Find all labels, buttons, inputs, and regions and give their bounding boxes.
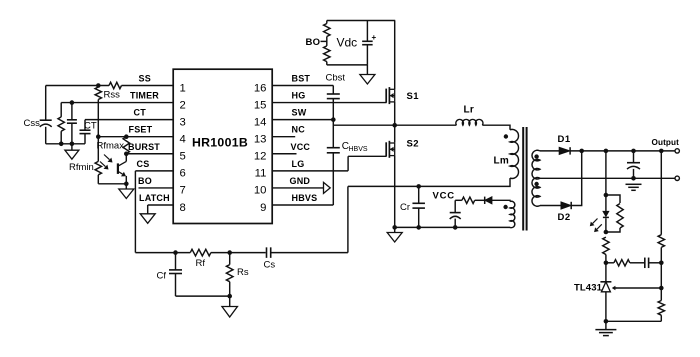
svg-text:3: 3 [180, 116, 186, 128]
svg-text:Cf: Cf [157, 271, 167, 282]
wire CS pin6 [135, 170, 173, 172]
svg-text:VCC: VCC [433, 191, 455, 202]
svg-text:7: 7 [180, 185, 186, 197]
svg-text:BO: BO [306, 37, 321, 48]
wire Css vertical top [45, 86, 47, 121]
wire TIMER corner down [60, 103, 62, 117]
svg-text:2: 2 [180, 99, 186, 111]
node TIMER-cap junction [70, 100, 75, 105]
resistor VCC aux [462, 197, 475, 203]
LED light arrow 1 [593, 219, 598, 224]
capacitor Cr [412, 202, 425, 204]
node rail-cap junction [70, 142, 75, 147]
svg-text:Rs: Rs [237, 267, 249, 278]
wire CHBVS to HBVS [332, 153, 334, 205]
svg-text:+: + [372, 33, 377, 42]
wire comp resistor to cap [630, 262, 645, 264]
node rail-resistor junction [59, 142, 64, 147]
wire comp node to TL431 [605, 263, 607, 282]
wire divider top [660, 151, 662, 235]
polarity dot Lm [504, 134, 508, 138]
wire LG pin11 [272, 170, 348, 172]
resistor opto parallel [617, 204, 623, 229]
TL431 U2 triangle [601, 282, 610, 292]
svg-text:5: 5 [180, 151, 186, 163]
inductor aux winding [510, 201, 515, 227]
wire Cf top [175, 253, 177, 270]
node ref-divider junction [659, 286, 664, 291]
resistor Rs [226, 265, 233, 282]
wire HG pin15 [272, 102, 386, 104]
LED optocoupler diode [603, 211, 609, 216]
wire TL431 ref line [615, 287, 661, 289]
wire BO divider middle [326, 37, 328, 46]
polarity dot secondary lower [534, 182, 538, 186]
wire cap branch bottom [71, 123, 73, 144]
wire Vdc cap bottom [366, 45, 368, 65]
ground output earth [626, 183, 642, 185]
wire left ground rail [46, 143, 85, 145]
wire opto parallel top stub [606, 195, 620, 203]
wire secondary top to D1 [540, 150, 559, 152]
wire LG to S2 gate [348, 155, 387, 157]
node divider junction [659, 149, 664, 154]
node Cf junction [173, 250, 178, 255]
ground left network [65, 150, 79, 159]
node opto bottom junction [604, 230, 609, 235]
svg-text:6: 6 [180, 168, 186, 180]
node Cvcc ground junction [453, 225, 458, 230]
wire primary ground rail [395, 226, 510, 228]
polarity dot aux winding [503, 205, 507, 209]
phototransistor Q1 collector arm [118, 161, 126, 166]
resistor Rss (vertical) [95, 87, 101, 100]
node SW power junction [392, 123, 397, 128]
wire Cvcc top [454, 200, 456, 212]
capacitor CT [80, 129, 91, 131]
secondary winding lower [532, 178, 540, 207]
capacitor Cs [266, 247, 268, 258]
wire output cap bottom [633, 169, 635, 178]
wire secondary bottom to D2 [540, 205, 561, 207]
wire CT corner down [84, 120, 86, 131]
wire S1 source down [394, 102, 396, 125]
wire CS vertical down [134, 171, 136, 253]
svg-text:13: 13 [254, 134, 267, 146]
transformer core bar left [522, 127, 524, 231]
svg-text:15: 15 [254, 99, 267, 111]
wire BST pin16 [272, 85, 333, 87]
capacitor Css [40, 119, 52, 121]
ground primary [387, 233, 402, 243]
node Rs ground junction [227, 294, 232, 299]
resistor feedback upper [603, 237, 609, 254]
wire opto branch down [605, 151, 607, 195]
wire Vdc cap top [366, 21, 368, 42]
wire CS bottom line left [135, 252, 190, 254]
wire LED bottom [605, 218, 607, 232]
resistor BO lower [324, 46, 330, 62]
wire D2 riser [571, 151, 582, 206]
diode D1 [559, 147, 570, 154]
wire Cr branch down [347, 186, 349, 252]
node SW-Cbst junction [331, 117, 336, 122]
output terminal plus [675, 149, 679, 153]
light arrow 1 into Q1 [104, 155, 109, 160]
wire comp cap to divider [649, 262, 662, 264]
svg-text:VCC: VCC [291, 142, 311, 152]
ground at optocoupler [119, 189, 134, 199]
svg-text:1: 1 [180, 82, 186, 94]
wire Cr bottom [418, 208, 420, 227]
resistor Rfmax [123, 137, 129, 154]
wire LED top [605, 195, 607, 211]
capacitor on TIMER branch [67, 119, 77, 121]
wire CT cap to rail [84, 134, 86, 144]
wire emitter down [125, 176, 127, 184]
wire BO divider bottom [326, 62, 328, 65]
svg-text:11: 11 [255, 168, 267, 180]
wire TL431 anode down [605, 292, 607, 322]
svg-text:BURST: BURST [128, 142, 160, 152]
svg-text:Lr: Lr [464, 105, 475, 116]
wire Cbst vertical top [332, 86, 334, 95]
wire diode to aux coil [492, 200, 510, 201]
wire SS pin1 segment [46, 85, 109, 87]
label BO tap dash [321, 40, 327, 42]
node emitter junction [124, 182, 129, 187]
svg-text:HR1001B: HR1001B [192, 135, 248, 149]
ground TL431 earth [595, 329, 616, 331]
svg-text:FSET: FSET [129, 125, 153, 135]
wire BO divider top [326, 21, 328, 24]
node output cap junction [631, 149, 636, 154]
wire Cr top [418, 186, 420, 203]
svg-text:TIMER: TIMER [130, 91, 159, 101]
transistor S2 [385, 142, 387, 156]
wire VCC pin12 stub [272, 153, 296, 155]
output terminal minus [675, 176, 679, 180]
wire Vdc ground stem [366, 65, 368, 75]
svg-text:Output: Output [652, 138, 680, 147]
wire Css vertical bottom [45, 127, 47, 144]
inductor Lr [456, 119, 483, 125]
svg-text:CS: CS [137, 159, 150, 169]
wire aux resistor to diode [475, 199, 485, 201]
wire LATCH pin8 [148, 204, 174, 206]
svg-text:HG: HG [292, 91, 306, 101]
node opto branch junction [604, 149, 609, 154]
light arrow 2 into Q1 [100, 162, 105, 167]
transformer core bar right [526, 127, 528, 231]
node D2 return junction [579, 149, 584, 154]
wire secondary bottom rail [606, 320, 661, 322]
resistor divider upper [658, 235, 664, 248]
wire NC pin13 stub [272, 136, 295, 138]
capacitor Cvcc [450, 212, 461, 214]
svg-text:HBVS: HBVS [349, 146, 368, 153]
resistor compensation [614, 260, 630, 266]
resistor BO upper [324, 24, 330, 37]
wire opto parallel bottom stub [606, 228, 620, 232]
wire output return line [540, 177, 675, 179]
wire S2 drain [394, 125, 396, 143]
svg-text:HBVS: HBVS [292, 193, 318, 203]
svg-text:10: 10 [254, 185, 267, 197]
op-amp/controller IC U1 HR1001B body [173, 69, 272, 223]
svg-text:9: 9 [260, 202, 266, 214]
wire SW to CHBVS [332, 120, 334, 148]
svg-text:S1: S1 [407, 91, 420, 102]
wire SS pin1 to IC [122, 85, 174, 87]
inductor Lm primary winding [510, 129, 519, 178]
wire Cs to Cr branch [271, 252, 348, 254]
wire LATCH down [147, 205, 149, 214]
svg-text:Rf: Rf [196, 258, 206, 269]
wire rail ground stem [71, 144, 73, 150]
resistor on SS line (horizontal) [109, 82, 122, 88]
node comp junction [604, 261, 609, 266]
wire CT pin3 [85, 119, 173, 121]
capacitor Vdc bulk [362, 40, 373, 42]
node Cr top junction [416, 184, 421, 189]
ground at LATCH [140, 214, 155, 224]
node Cr bottom junction [416, 225, 421, 230]
svg-text:8: 8 [180, 202, 186, 214]
wire S1 drain from rail [394, 21, 396, 90]
secondary winding upper [532, 150, 540, 179]
wire Vdc bottom rail [327, 64, 368, 66]
ground TL431 earth stem [605, 321, 607, 329]
node BURST-Rfmax junction [124, 151, 129, 156]
node opto top junction [604, 193, 609, 198]
svg-text:Cr: Cr [400, 202, 410, 213]
svg-text:BO: BO [138, 176, 152, 186]
node return-cap junction [631, 176, 636, 181]
wire D1 to output [570, 150, 675, 152]
node comp-divider junction [659, 261, 664, 266]
TL431 U2 cathode bar [600, 281, 611, 283]
svg-text:CT: CT [134, 108, 147, 118]
GND open arrow [324, 182, 331, 193]
transistor S1 [385, 89, 387, 103]
resistor on TIMER branch [58, 117, 64, 131]
node TL431 ground junction [604, 319, 609, 324]
svg-text:NC: NC [292, 125, 306, 135]
diode VCC rectifier [485, 197, 492, 204]
wire GND pin10 [272, 187, 323, 189]
svg-text:14: 14 [254, 116, 267, 128]
wire Cf bottom [175, 274, 177, 297]
node SS-Rss junction [96, 83, 101, 88]
wire opto ground stem [125, 184, 127, 189]
svg-text:SS: SS [139, 74, 151, 84]
resistor Rfmin [95, 161, 101, 174]
wire Rs top [229, 253, 231, 265]
wire Cbst to SW [332, 99, 334, 120]
svg-text:TL431: TL431 [574, 283, 603, 294]
svg-text:Rfmax: Rfmax [97, 141, 125, 152]
svg-text:GND: GND [290, 176, 311, 186]
capacitor Cf [169, 269, 182, 271]
svg-text:Css: Css [24, 118, 41, 129]
svg-text:Vdc: Vdc [337, 36, 358, 50]
wire divider bottom [660, 315, 662, 321]
wire BURST to collector [125, 154, 127, 162]
svg-text:D2: D2 [558, 212, 571, 223]
node Rs junction [227, 250, 232, 255]
capacitor compensation [644, 258, 646, 269]
wire SW pin14 [272, 119, 333, 121]
svg-text:16: 16 [254, 82, 267, 94]
LED light arrow 2 [597, 224, 602, 229]
svg-text:BST: BST [292, 74, 311, 84]
svg-text:Cs: Cs [264, 260, 276, 271]
svg-text:CT: CT [84, 121, 97, 132]
wire to comp node [605, 255, 607, 263]
polarity dot secondary upper [534, 154, 538, 158]
node FSET-Rfmax junction [124, 134, 129, 139]
capacitor output filter [627, 162, 640, 164]
node S2 source ground junction [392, 225, 397, 230]
wire Cvcc bottom [454, 219, 456, 228]
svg-text:Rss: Rss [104, 90, 121, 101]
wire Cf-Rs bottom link [176, 295, 230, 297]
wire Rfmin to emitter rail [97, 175, 99, 184]
capacitor Cbst [327, 93, 340, 95]
wire FSET down to Rfmin [97, 137, 99, 162]
phototransistor Q1 emitter arm [118, 171, 123, 174]
wire TIMER pin2 [61, 102, 173, 104]
wire Rss down to FSET [97, 100, 99, 137]
wire Vdc top rail [327, 20, 395, 22]
wire primary ground stem [394, 227, 396, 232]
resistor divider lower [658, 301, 664, 316]
wire FSET pin4 [98, 136, 173, 138]
wire HBVS pin9 [272, 204, 333, 206]
wire BO pin7 stub [139, 187, 174, 189]
svg-text:LATCH: LATCH [139, 193, 170, 203]
wire Lr to Lm corner [482, 125, 510, 130]
TL431 ref arrow [615, 287, 617, 289]
svg-text:LG: LG [292, 159, 305, 169]
svg-text:Rfmin: Rfmin [69, 162, 94, 173]
svg-text:4: 4 [180, 134, 186, 146]
svg-text:Lm: Lm [494, 155, 510, 166]
svg-text:Cbst: Cbst [326, 73, 346, 84]
svg-text:12: 12 [254, 151, 267, 163]
diode D2 [561, 202, 571, 209]
svg-text:SW: SW [292, 108, 307, 118]
wire Rf to Rs node [211, 252, 266, 254]
resistor Rf [190, 249, 211, 256]
wire Rs ground stem [229, 296, 231, 306]
wire TIMER resistor to rail [60, 131, 62, 144]
wire LG riser [347, 156, 349, 171]
wire cap branch top [71, 103, 73, 120]
node FSET-Rss junction [96, 134, 101, 139]
ground Rs [222, 307, 238, 318]
svg-text:D1: D1 [558, 134, 571, 145]
ground Vdc [360, 75, 375, 85]
wire VCC aux line start [455, 199, 462, 201]
wire S2 source down [394, 156, 396, 228]
phototransistor Q1 base bar [117, 163, 119, 174]
svg-text:S2: S2 [407, 139, 419, 150]
wire Rs bottom [229, 282, 231, 296]
capacitor CHBVS [327, 147, 340, 149]
wire comp stub [606, 262, 614, 264]
wire output cap top [633, 151, 635, 163]
wire BURST pin5 [126, 153, 173, 155]
wire emitter rail [98, 183, 126, 185]
wire Lm bottom corner [348, 178, 510, 186]
wire divider middle [660, 247, 662, 300]
wire resonant line [333, 124, 456, 126]
